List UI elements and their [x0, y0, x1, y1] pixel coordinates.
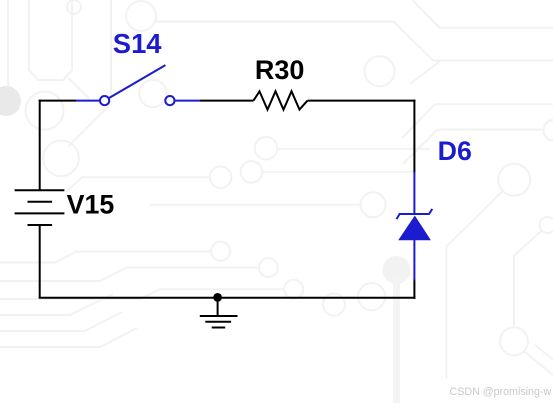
node: junction of bottom wire and ground stub [213, 293, 222, 302]
wire: resistor to top-right corner [308, 100, 416, 102]
ground [200, 298, 238, 328]
wire: blue stub into switch left terminal [76, 100, 100, 102]
wire: left vertical from top-left corner down to battery positive [39, 100, 41, 191]
zener diode D6 [397, 172, 433, 281]
svg-text:S14: S14 [113, 28, 163, 59]
battery V15 [15, 190, 65, 225]
svg-text:D6: D6 [438, 136, 472, 166]
svg-text:R30: R30 [255, 55, 305, 85]
wire: left vertical, battery negative down to bottom-left corner [39, 225, 41, 298]
resistor R30 [254, 91, 308, 109]
wire: right vertical, corner down to diode cathode lead [413, 100, 415, 173]
svg-text:V15: V15 [67, 189, 115, 219]
switch S14 [100, 65, 174, 105]
wire: top-left horizontal, corner to switch left lead [39, 100, 76, 102]
wire: right vertical, diode anode lead to bottom-right corner [413, 279, 415, 298]
wire: bottom horizontal, right corner to left corner [39, 297, 416, 299]
wire: blue stub from switch right terminal [175, 100, 200, 102]
svg-text:CSDN @promising-w: CSDN @promising-w [450, 386, 552, 398]
wire: switch right lead to resistor [200, 100, 254, 102]
